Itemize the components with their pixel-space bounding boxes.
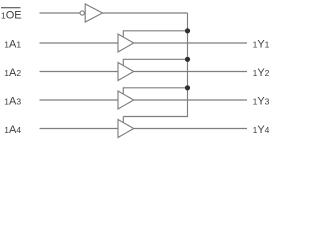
svg-text:1A4: 1A4 — [4, 124, 21, 136]
svg-text:1Y1: 1Y1 — [253, 38, 270, 50]
svg-text:1A1: 1A1 — [4, 38, 21, 50]
svg-text:1Y4: 1Y4 — [253, 124, 270, 136]
svg-text:1OE: 1OE — [1, 9, 22, 21]
svg-text:1Y3: 1Y3 — [253, 95, 270, 107]
svg-text:1A3: 1A3 — [4, 95, 21, 107]
svg-text:1A2: 1A2 — [4, 67, 21, 79]
svg-text:1Y2: 1Y2 — [253, 67, 270, 79]
